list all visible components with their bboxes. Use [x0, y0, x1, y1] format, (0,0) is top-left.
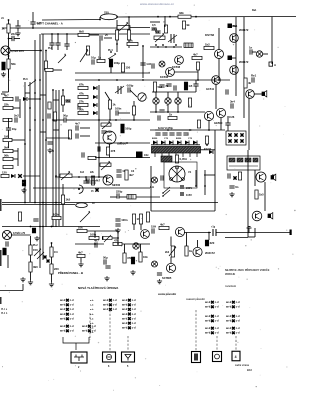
wire: [109, 109, 111, 120]
connector X5: [213, 352, 222, 362]
capacitor C27: [159, 84, 168, 88]
diode D7: [102, 236, 106, 240]
svg-text:KSY62: KSY62: [205, 33, 215, 37]
wire: [39, 34, 41, 268]
capacitor C2: [30, 21, 41, 25]
potentiometer P7: [60, 171, 72, 180]
wire: [151, 210, 215, 212]
wire: [94, 231, 96, 238]
svg-text:an-b: an-b: [226, 332, 232, 335]
svg-text:an-b: an-b: [122, 327, 128, 330]
junction: [208, 232, 210, 234]
capacitor C46: [115, 224, 120, 226]
svg-text:an-b: an-b: [103, 299, 109, 302]
junction: [165, 46, 167, 48]
capacitor C10: [63, 114, 68, 123]
svg-text:1n: 1n: [249, 46, 253, 50]
svg-text:an-b: an-b: [60, 318, 66, 321]
svg-text:c-d: c-d: [215, 327, 219, 330]
wire: [220, 118, 222, 130]
junction: [24, 98, 26, 100]
switch contact bank SB4: [122, 299, 136, 330]
meter M2: [138, 93, 146, 101]
wire: [227, 125, 229, 131]
resistor R42: [61, 195, 70, 204]
switch S3: [108, 53, 116, 59]
junction: [66, 33, 68, 35]
junction: [51, 226, 53, 228]
junction: [173, 46, 175, 48]
wire: [46, 137, 70, 139]
resistor R25: [78, 82, 88, 89]
junction: [110, 51, 112, 53]
svg-text:27k: 27k: [79, 99, 84, 103]
capacitor C3: [11, 32, 16, 41]
wire: [75, 187, 150, 189]
capacitor C11: [47, 142, 52, 144]
wiper arrow P2: [80, 49, 88, 62]
junction: [109, 119, 111, 121]
wire: [271, 60, 273, 64]
wire d3: [195, 310, 197, 351]
potentiometer P10: [101, 121, 111, 129]
capacitor C32: [159, 110, 164, 112]
resistor R49: [50, 247, 58, 257]
resistor R37: [125, 170, 134, 180]
diode D2: [11, 174, 15, 178]
wire: [92, 177, 94, 181]
resistor R41: [146, 212, 149, 222]
capacitor C58: [131, 257, 137, 264]
resistor R68: [48, 102, 51, 109]
speaker SP1: [262, 91, 267, 97]
wire: [95, 142, 150, 144]
wire: [133, 224, 135, 230]
resistor R32: [188, 98, 191, 107]
wire: [2, 226, 100, 228]
svg-text:c-d: c-d: [132, 317, 136, 320]
wire: [57, 34, 59, 38]
wire: [235, 17, 237, 97]
svg-text:cesta původní: cesta původní: [158, 292, 176, 296]
junction: [155, 44, 157, 46]
resistor R17: [127, 38, 138, 45]
junction: [55, 175, 57, 177]
svg-text:6n: 6n: [235, 185, 239, 189]
wire: [264, 182, 266, 211]
svg-text:an-b: an-b: [60, 325, 66, 328]
wire: [254, 170, 256, 186]
wire: [108, 237, 118, 239]
wire: [140, 244, 142, 252]
ground G11: [104, 276, 109, 281]
wire: [89, 34, 99, 36]
capacitor C69: [98, 146, 100, 151]
connector X3: [122, 352, 135, 362]
wire: [13, 107, 20, 109]
junction: [167, 111, 169, 113]
wire: [2, 27, 117, 29]
svg-text:an-b: an-b: [122, 322, 128, 325]
svg-text:www.starezesilovace.cz: www.starezesilovace.cz: [139, 2, 174, 6]
junction: [45, 50, 47, 52]
svg-text:an-b: an-b: [82, 330, 88, 333]
junction: [24, 202, 26, 204]
capacitor C6: [14, 114, 19, 123]
resistor R28: [78, 107, 88, 114]
ground G7: [229, 192, 234, 197]
wire: [197, 240, 199, 248]
svg-text:1k: 1k: [189, 249, 193, 253]
wire: [30, 255, 32, 262]
capacitor C8: [22, 180, 26, 186]
svg-text:an-b: an-b: [122, 317, 128, 320]
ground G4: [47, 148, 52, 153]
lamp LA3: [165, 98, 171, 104]
junction: [34, 92, 36, 94]
wire: [208, 233, 210, 241]
svg-text:an-b: an-b: [205, 306, 211, 309]
wire: [62, 184, 64, 195]
junction: [78, 176, 80, 178]
transistor T5: [230, 66, 239, 75]
switch block S4: [226, 131, 246, 145]
switch S10: [44, 256, 50, 263]
resistor R2: [7, 59, 16, 69]
wire: [95, 157, 150, 159]
capacitor C18: [251, 74, 257, 83]
resistor R31: [153, 82, 162, 92]
wire: [105, 92, 110, 100]
junction: [29, 129, 31, 131]
wire: [118, 16, 296, 19]
resistor R39: [132, 214, 141, 224]
transistor T17: [141, 230, 150, 239]
transistor T4: [230, 34, 239, 43]
capacitor C36: [169, 133, 174, 135]
capacitor C38: [183, 133, 188, 135]
svg-text:15H: 15H: [151, 225, 156, 229]
junction: [39, 98, 41, 100]
fuse F2: [76, 203, 88, 208]
wire: [167, 104, 169, 112]
svg-text:c-d: c-d: [113, 304, 117, 307]
resistor R8: [3, 153, 13, 160]
ground G14: [78, 262, 83, 267]
capacitor C68: [32, 228, 36, 233]
transistor T3: [166, 68, 175, 77]
svg-text:10k: 10k: [79, 107, 84, 111]
svg-text:1k2: 1k2: [205, 42, 210, 46]
choke L3: [136, 152, 149, 159]
transistor T12: [256, 172, 266, 182]
svg-text:C4: C4: [54, 250, 58, 254]
wire: [254, 93, 262, 95]
wire: [2, 91, 9, 93]
wire: [170, 237, 172, 247]
svg-text:B250: B250: [176, 138, 182, 140]
wire: [130, 90, 137, 97]
svg-text:100n: 100n: [121, 218, 128, 222]
switch contact bank SB1b: [60, 313, 74, 321]
capacitor C22: [76, 133, 78, 138]
capacitor C72: [151, 225, 156, 234]
capacitor C42: [116, 169, 127, 173]
wire: [214, 130, 216, 148]
wire: [51, 34, 53, 38]
svg-text:B250: B250: [152, 138, 158, 140]
junction: [51, 33, 53, 35]
junction: [206, 144, 208, 146]
junction: [133, 119, 135, 121]
svg-text:c-d: c-d: [132, 313, 136, 316]
junction: [94, 243, 96, 245]
capacitor C26: [115, 107, 122, 116]
scan mark: [0, 199, 2, 211]
junction: [117, 237, 119, 239]
switch S8: [233, 176, 236, 179]
wire: [98, 125, 100, 177]
svg-text:c-d: c-d: [70, 299, 74, 302]
svg-text:GC511: GC511: [206, 87, 215, 91]
svg-text:230V: 230V: [186, 186, 192, 190]
wire: [117, 231, 119, 244]
svg-text:an-b: an-b: [122, 304, 128, 307]
junction: [117, 243, 119, 245]
svg-text:SC7805: SC7805: [162, 276, 172, 280]
svg-text:an-b: an-b: [60, 313, 66, 316]
svg-text:Re1: Re1: [251, 74, 257, 78]
wire: [197, 70, 199, 80]
wire: [19, 99, 21, 118]
trimmer capacitor C16: [168, 34, 177, 43]
capacitor C25: [127, 84, 134, 93]
wire: [152, 91, 196, 93]
resistor R29: [108, 100, 116, 109]
capacitor C12: [100, 35, 102, 40]
capacitor C28: [166, 84, 171, 86]
wire: [66, 119, 75, 121]
wire: [8, 118, 10, 128]
svg-text:0,45A: 0,45A: [180, 157, 187, 161]
svg-text:1k5: 1k5: [259, 193, 264, 197]
wire: [130, 27, 150, 29]
wire: [263, 53, 268, 55]
voltage selector: [180, 186, 192, 197]
ground G10: [49, 282, 54, 287]
junction: [167, 129, 169, 131]
capacitor C52: [157, 273, 162, 275]
wire d5: [235, 336, 237, 350]
terminal strip text: [90, 300, 94, 334]
wire: [119, 196, 127, 198]
svg-text:4n7: 4n7: [94, 239, 99, 243]
svg-text:150: 150: [126, 66, 131, 70]
capacitor C41: [87, 178, 89, 183]
trimmer capacitor C24: [115, 86, 124, 94]
junction: [204, 185, 206, 187]
svg-text:1k5: 1k5: [66, 198, 71, 202]
junction: [94, 243, 96, 245]
svg-text:an-b: an-b: [122, 299, 128, 302]
wire: [51, 45, 53, 50]
wire: [51, 257, 53, 264]
wire: [167, 92, 169, 98]
junction: [92, 176, 94, 178]
wire: [80, 258, 82, 262]
resistor R26: [78, 91, 88, 98]
ground G6: [115, 228, 120, 233]
ground G12: [130, 270, 135, 275]
diode D10: [153, 141, 157, 145]
capacitor C30: [184, 82, 193, 90]
svg-text:2n2: 2n2: [14, 114, 19, 118]
svg-text:an-b: an-b: [205, 320, 211, 323]
wire: [75, 72, 150, 74]
resistor R58: [45, 68, 53, 71]
svg-text:c-d: c-d: [113, 308, 117, 311]
resistor R52: [89, 232, 99, 239]
wire: [53, 69, 62, 71]
switch S1a: [18, 174, 22, 178]
wire: [41, 33, 150, 35]
switch contact bank SB5c: [205, 327, 219, 335]
wire: [45, 56, 47, 227]
resistor R36: [91, 176, 100, 185]
wire: [99, 119, 150, 121]
resistor R54: [113, 238, 122, 245]
svg-text:LEFT CHANNEL - A: LEFT CHANNEL - A: [37, 22, 63, 26]
junction: [52, 89, 54, 91]
wire: [53, 129, 59, 131]
junction: [39, 79, 41, 81]
svg-text:c-d: c-d: [132, 299, 136, 302]
fuse F1: [101, 11, 118, 20]
svg-text:an-b: an-b: [60, 299, 66, 302]
scan mark: [0, 297, 2, 304]
wire: [164, 16, 166, 27]
resistor R11: [61, 96, 70, 105]
transistor T9: [216, 108, 225, 117]
wire: [40, 131, 46, 133]
switch S7: [91, 188, 99, 193]
resistor R60: [182, 21, 190, 29]
svg-text:c-d: c-d: [70, 313, 74, 316]
junction: [24, 143, 26, 145]
wire: [128, 17, 130, 30]
resistor R5: [3, 118, 12, 121]
wire: [51, 38, 53, 43]
junction: [52, 150, 54, 152]
svg-text:4k7: 4k7: [96, 179, 101, 183]
resistor R66: [205, 136, 208, 144]
svg-text:c-d: c-d: [236, 315, 240, 318]
capacitor C45: [115, 218, 127, 222]
wire: [252, 51, 256, 53]
junction: [116, 43, 118, 45]
svg-text:0,5VA D70: 0,5VA D70: [11, 49, 24, 53]
inductor L2: [127, 195, 136, 200]
wire: [75, 243, 104, 245]
svg-text:c-d: c-d: [215, 301, 219, 304]
resistor R64: [88, 156, 96, 159]
capacitor C75: [64, 44, 69, 46]
wire d2: [127, 336, 129, 351]
wire: [2, 202, 218, 204]
wire: [80, 135, 90, 137]
resistor R61: [164, 25, 167, 33]
wire: [150, 21, 160, 23]
svg-text:c-d: c-d: [236, 306, 240, 309]
wire: [66, 34, 68, 44]
svg-text:2N4172: 2N4172: [239, 28, 249, 32]
transistor T14: [175, 227, 184, 236]
resistor R23: [196, 62, 199, 70]
wire: [186, 240, 188, 246]
junction: [39, 226, 41, 228]
potentiometer P3: [154, 33, 165, 42]
capacitor C62: [151, 28, 156, 30]
wire: [22, 284, 24, 291]
switch contact bank SB6: [226, 301, 240, 309]
svg-text:1n5: 1n5: [146, 62, 151, 66]
wire: [25, 92, 30, 94]
svg-text:6k8: 6k8: [79, 29, 84, 33]
capacitor C74: [90, 181, 95, 183]
svg-text:5k6: 5k6: [4, 145, 9, 149]
wire: [11, 234, 31, 236]
wire: [51, 243, 53, 247]
relay K2: [227, 156, 260, 170]
ground G8: [157, 279, 162, 284]
junction: [34, 119, 36, 121]
junction: [52, 119, 54, 121]
resistor R14: [78, 29, 89, 36]
wire: [243, 17, 245, 119]
wire: [109, 144, 111, 158]
transistor T1: [205, 33, 224, 59]
wire: [174, 71, 198, 73]
switch contact bank SB3: [103, 299, 117, 311]
potentiometer P1: [117, 22, 130, 31]
svg-text:V1: V1: [188, 170, 192, 174]
junction: [195, 16, 197, 18]
switch contact bank SB5: [205, 301, 219, 309]
svg-text:PL6: PL6: [23, 78, 28, 81]
svg-text:2k2: 2k2: [165, 251, 170, 254]
wire: [218, 58, 220, 80]
svg-text:c-d: c-d: [132, 304, 136, 307]
wire: [2, 204, 75, 206]
svg-text:an-b: an-b: [60, 330, 66, 333]
capacitor C19: [230, 100, 235, 109]
resistor R40: [139, 214, 142, 224]
transformer TR1 winding: [152, 147, 201, 158]
relay contact K1b: [228, 56, 233, 61]
svg-text:2N4172: 2N4172: [205, 251, 215, 255]
wire: [30, 272, 32, 280]
wire: [218, 28, 220, 50]
svg-text:120: 120: [2, 170, 7, 174]
svg-text:100n: 100n: [53, 212, 60, 216]
relay contact K1a: [228, 24, 233, 29]
svg-text:478: 478: [111, 149, 116, 153]
wire: [55, 90, 57, 227]
svg-text:100µ: 100µ: [125, 127, 132, 131]
capacitor C70: [78, 104, 80, 109]
junction: [40, 50, 42, 52]
switch contact bank SB6b: [226, 315, 240, 323]
